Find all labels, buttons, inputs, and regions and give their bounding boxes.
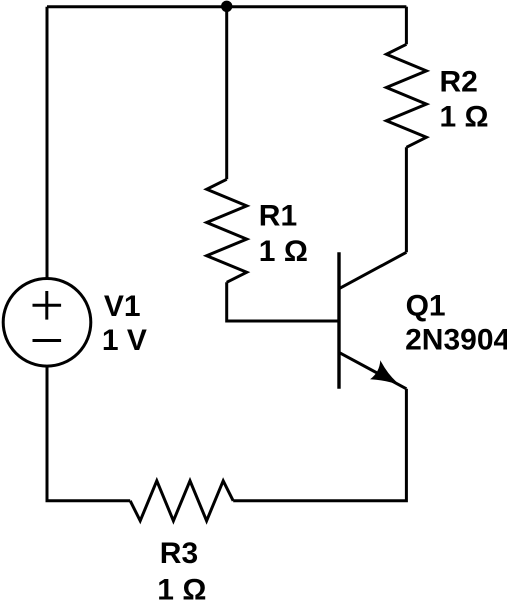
svg-text:1 V: 1 V xyxy=(102,324,147,357)
svg-text:V1: V1 xyxy=(104,290,141,323)
svg-text:R2: R2 xyxy=(440,66,478,99)
svg-text:1 Ω: 1 Ω xyxy=(157,573,206,600)
svg-text:2N3904: 2N3904 xyxy=(405,324,507,357)
svg-text:Q1: Q1 xyxy=(406,290,446,323)
svg-text:R1: R1 xyxy=(259,200,297,233)
svg-text:R3: R3 xyxy=(160,537,198,570)
svg-text:1 Ω: 1 Ω xyxy=(259,235,308,268)
svg-text:1 Ω: 1 Ω xyxy=(440,101,489,134)
